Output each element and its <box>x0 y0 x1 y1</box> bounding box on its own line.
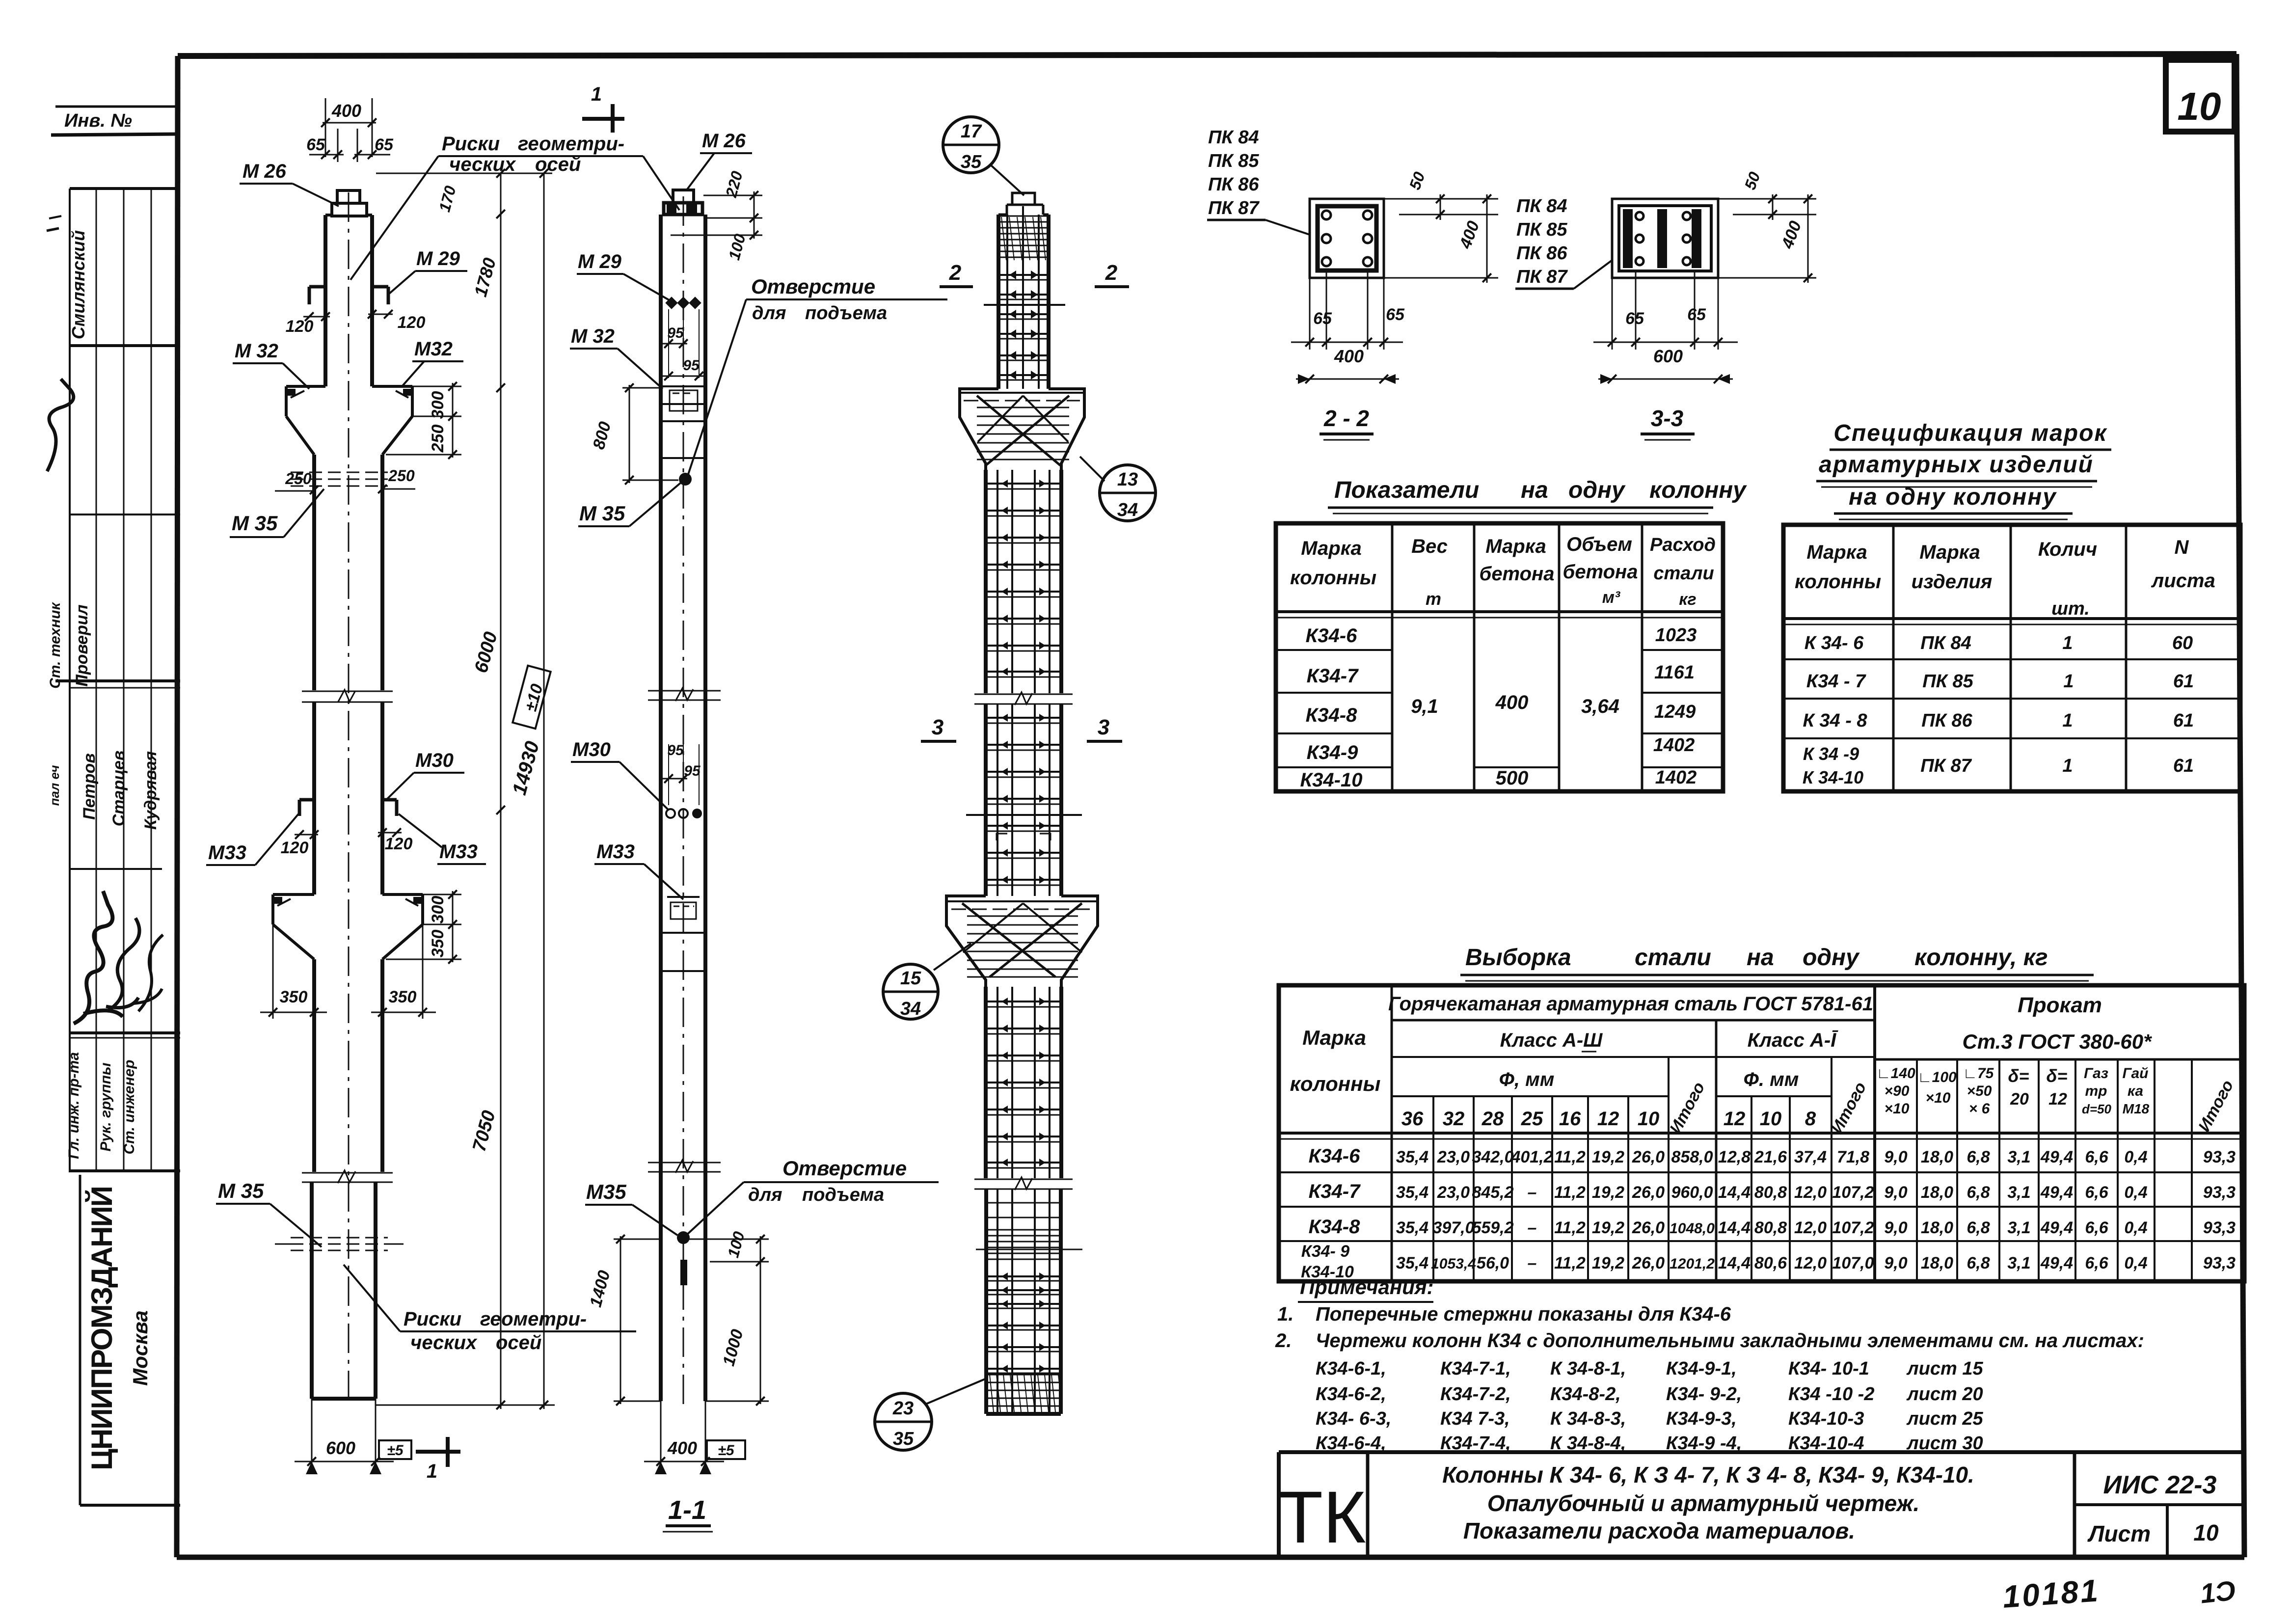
column2 embedded bar lower <box>680 1260 687 1285</box>
column2 shaft <box>661 215 705 1401</box>
svg-text:500: 500 <box>1496 767 1529 789</box>
svg-text:60: 60 <box>2172 633 2193 653</box>
stamp signature scribble 1 <box>47 379 74 471</box>
svg-text:колонну, кг: колонну, кг <box>1914 945 2048 971</box>
svg-text:1: 1 <box>2062 710 2073 731</box>
svg-text:32: 32 <box>1443 1108 1465 1130</box>
svg-text:М 32: М 32 <box>571 325 615 347</box>
svg-text:м³: м³ <box>1602 588 1621 607</box>
svg-text:∟140: ∟140 <box>1876 1065 1915 1082</box>
svg-text:35,4: 35,4 <box>1396 1218 1428 1237</box>
column1 break marks upper <box>302 690 393 703</box>
svg-text:К34 -10 -2: К34 -10 -2 <box>1788 1384 1874 1405</box>
svg-text:342,0: 342,0 <box>1472 1148 1513 1166</box>
svg-text:65: 65 <box>306 135 325 154</box>
svg-text:35: 35 <box>961 152 982 172</box>
label M29 col1 <box>389 248 467 294</box>
svg-text:1249: 1249 <box>1654 702 1696 722</box>
rebar column shaft segment B <box>986 704 1061 896</box>
svg-text:1: 1 <box>2062 756 2073 776</box>
svg-text:400: 400 <box>1495 692 1529 713</box>
svg-text:Объем: Объем <box>1566 534 1632 555</box>
svg-text:Показатели: Показатели <box>1334 477 1479 503</box>
label M29 col2 <box>577 251 672 301</box>
svg-text:К34- 9: К34- 9 <box>1301 1242 1349 1261</box>
svg-text:65: 65 <box>1313 309 1332 328</box>
table2 grid <box>1783 525 2240 791</box>
column2 bands lower <box>661 933 705 971</box>
stamp labels Gl.inzh / Ruk.gruppy / St.inzhener <box>66 1052 137 1159</box>
svg-text:80,8: 80,8 <box>1754 1183 1787 1202</box>
svg-text:М30: М30 <box>572 739 611 760</box>
svg-text:ПК 87: ПК 87 <box>1208 198 1260 218</box>
svg-text:23,0: 23,0 <box>1437 1183 1470 1202</box>
svg-text:для: для <box>748 1185 782 1205</box>
svg-text:М18: М18 <box>2123 1101 2150 1116</box>
column1 shaft lower <box>314 959 382 1172</box>
svg-text:10181: 10181 <box>2001 1572 2101 1615</box>
svg-text:107,0: 107,0 <box>1832 1254 1874 1272</box>
svg-text:400: 400 <box>1334 346 1364 366</box>
svg-text:К34-10: К34-10 <box>1300 769 1363 791</box>
svg-text:23,0: 23,0 <box>1437 1148 1470 1166</box>
svg-text:11,2: 11,2 <box>1554 1148 1586 1166</box>
svg-text:Марка: Марка <box>1302 1026 1366 1049</box>
svg-text:1048,0: 1048,0 <box>1670 1220 1715 1237</box>
svg-text:1Ɔ: 1Ɔ <box>2199 1575 2237 1609</box>
svg-text:9,1: 9,1 <box>1411 696 1438 717</box>
label M26 col2 <box>686 130 752 190</box>
svg-text:на: на <box>1521 477 1548 503</box>
svg-text:8: 8 <box>1805 1108 1816 1130</box>
svg-text:Поперечные стержни показаны: Поперечные стержни показаны для К34-6 <box>1316 1303 1731 1325</box>
rebar column callout circle 13/34 <box>1080 457 1156 521</box>
svg-text:300: 300 <box>429 391 447 419</box>
svg-text:К34 - 7: К34 - 7 <box>1806 671 1866 692</box>
column1 capital 2 outline <box>273 894 423 959</box>
table1 data rows <box>1300 625 1697 791</box>
svg-text:3,1: 3,1 <box>2007 1183 2030 1202</box>
svg-text:Вес: Вес <box>1411 536 1448 557</box>
svg-text:61: 61 <box>2173 671 2194 692</box>
svg-text:49,4: 49,4 <box>2040 1148 2073 1166</box>
svg-text:±5: ±5 <box>718 1442 734 1459</box>
svg-text:21,6: 21,6 <box>1754 1148 1787 1166</box>
svg-text:на: на <box>1747 945 1774 971</box>
svg-text:на одну колонну: на одну колонну <box>1849 484 2057 510</box>
svg-text:13: 13 <box>1117 469 1138 490</box>
column1 corbel plates M29 level <box>309 287 388 304</box>
section mark 1 top <box>582 83 624 133</box>
svg-text:19,2: 19,2 <box>1592 1218 1624 1237</box>
svg-text:Марка: Марка <box>1485 536 1546 557</box>
svg-text:95: 95 <box>667 325 684 341</box>
svg-text:250: 250 <box>429 425 447 453</box>
svg-text:6,8: 6,8 <box>1967 1148 1990 1166</box>
column1 capital2 dims 300 350 right <box>386 890 461 964</box>
svg-text:т: т <box>1426 589 1441 609</box>
label otverstie dlya podyoma bottom <box>686 1157 939 1235</box>
svg-text:400: 400 <box>331 101 361 121</box>
handwritten inventory number below frame <box>2001 1572 2237 1615</box>
svg-text:бетона: бетона <box>1480 563 1555 585</box>
svg-text:12: 12 <box>2048 1090 2067 1109</box>
label M35 col1 lower <box>216 1179 322 1247</box>
svg-text:К 34 -9: К 34 -9 <box>1803 744 1859 764</box>
svg-text:Гай: Гай <box>2122 1065 2148 1082</box>
svg-text:ПК 87: ПК 87 <box>1920 756 1972 776</box>
table1 header texts <box>1290 534 1716 609</box>
column2 bottom dim 400 and tolerance <box>644 1401 745 1474</box>
rebar column capital 1 <box>960 389 1084 470</box>
svg-text:К34-6: К34-6 <box>1306 625 1357 647</box>
column1 corbel plates M33 level <box>299 800 397 816</box>
stamp names Petrov Startsev Kudryavaya <box>47 751 160 830</box>
rebar column top verticals <box>1007 206 1039 389</box>
svg-text:0,4: 0,4 <box>2124 1183 2147 1202</box>
svg-text:арматурных изделий: арматурных изделий <box>1819 452 2094 478</box>
stamp TsNIIPromzdaniy Moskva <box>80 1175 180 1505</box>
label M35 col2 upper <box>578 483 680 526</box>
svg-text:ПК 85: ПК 85 <box>1516 219 1567 240</box>
rebar column break B <box>974 1177 1073 1190</box>
svg-text:0,4: 0,4 <box>2124 1254 2147 1272</box>
column1 dims 350 350 bottom of capital2 <box>260 924 436 1019</box>
svg-text:12: 12 <box>1597 1108 1619 1130</box>
svg-text:80,6: 80,6 <box>1754 1254 1787 1272</box>
column2 view 1-1 centerline <box>683 196 684 1405</box>
svg-text:1-1: 1-1 <box>668 1495 706 1525</box>
svg-text:стали: стали <box>1653 563 1714 584</box>
svg-text:Кудрявая: Кудрявая <box>141 751 160 830</box>
svg-text:∟100: ∟100 <box>1917 1069 1957 1085</box>
svg-text:400: 400 <box>667 1438 697 1458</box>
svg-text:250: 250 <box>285 470 312 487</box>
svg-text:Класс А-Ī: Класс А-Ī <box>1748 1029 1839 1051</box>
rebar column lower segment <box>976 1189 1082 1414</box>
svg-text:3-3: 3-3 <box>1651 406 1684 431</box>
rebar column callout circle 17/35 <box>943 117 1024 195</box>
svg-text:9,0: 9,0 <box>1884 1148 1907 1166</box>
svg-text:М35: М35 <box>586 1180 626 1203</box>
column2 top tenon and cap <box>664 190 702 215</box>
svg-text:×10: ×10 <box>1885 1101 1910 1117</box>
rebar column capital 2 <box>946 896 1098 987</box>
notes list of sheet numbers <box>1316 1358 1983 1454</box>
svg-text:К 34-8-1,: К 34-8-1, <box>1550 1358 1626 1379</box>
svg-text:геометри-: геометри- <box>518 133 624 155</box>
svg-text:12: 12 <box>1724 1108 1746 1130</box>
svg-text:–: – <box>1528 1183 1537 1202</box>
svg-text:К34-9-3,: К34-9-3, <box>1666 1408 1737 1429</box>
column1 capital 1 outline <box>286 386 412 455</box>
svg-text:×50: ×50 <box>1967 1083 1992 1099</box>
column2 top dims 220 100 <box>671 169 762 262</box>
sheet number box top-right <box>2166 60 2235 132</box>
svg-text:Москва: Москва <box>129 1310 152 1385</box>
svg-text:колонны: колонны <box>1795 571 1881 593</box>
svg-text:120: 120 <box>385 835 413 853</box>
svg-text:107,2: 107,2 <box>1832 1183 1874 1202</box>
section cut line 2-2 with labels <box>940 261 1129 305</box>
svg-text:× 6: × 6 <box>1969 1101 1990 1117</box>
label M35 col2 lower <box>585 1180 677 1235</box>
svg-text:960,0: 960,0 <box>1671 1183 1713 1202</box>
svg-text:18,0: 18,0 <box>1921 1183 1953 1202</box>
svg-text:ПК 85: ПК 85 <box>1922 671 1973 692</box>
svg-text:18,0: 18,0 <box>1921 1148 1953 1166</box>
svg-text:300: 300 <box>429 896 447 924</box>
svg-text:осей: осей <box>496 1332 541 1353</box>
svg-text:93,3: 93,3 <box>2203 1218 2236 1237</box>
svg-text:49,4: 49,4 <box>2040 1183 2073 1202</box>
svg-text:1: 1 <box>2063 671 2074 692</box>
svg-text:18,0: 18,0 <box>1921 1254 1953 1272</box>
svg-text:изделия: изделия <box>1912 571 1993 593</box>
column2 dim 1400 left <box>586 1235 661 1406</box>
column1 long dimension line 14930 <box>435 173 551 1409</box>
svg-text:25: 25 <box>1521 1108 1543 1130</box>
svg-text:Марка: Марка <box>1919 541 1980 563</box>
svg-text:19,2: 19,2 <box>1592 1148 1624 1166</box>
svg-text:3,1: 3,1 <box>2007 1254 2030 1272</box>
svg-text:401,2: 401,2 <box>1510 1148 1553 1166</box>
label M35 col1 upper <box>230 489 324 537</box>
column2 break marks lower <box>648 1160 721 1173</box>
svg-text:×10: ×10 <box>1926 1090 1951 1106</box>
svg-text:К 34 - 8: К 34 - 8 <box>1803 710 1867 731</box>
column2 lifting hole upper <box>679 473 692 486</box>
svg-text:К34-7-2,: К34-7-2, <box>1440 1384 1511 1405</box>
svg-text:80,8: 80,8 <box>1754 1218 1787 1237</box>
stamp signatures scribbles <box>74 891 163 1024</box>
svg-text:36: 36 <box>1401 1108 1424 1130</box>
svg-text:К34-10-3: К34-10-3 <box>1788 1408 1864 1429</box>
label M32 left col1 <box>233 340 309 389</box>
table2 header texts <box>1795 537 2215 619</box>
table1 heading Pokazateli na odnu kolonnu <box>1328 477 1747 514</box>
svg-text:К34-9: К34-9 <box>1307 742 1358 763</box>
svg-text:1402: 1402 <box>1653 735 1695 756</box>
column1 capital1 dims 300 250 right <box>386 382 461 459</box>
section cut line 3-3 with labels <box>921 715 1122 815</box>
rebar column shaft segment C <box>986 987 1061 1178</box>
svg-text:лист 20: лист 20 <box>1906 1384 1983 1405</box>
svg-text:18,0: 18,0 <box>1921 1218 1953 1237</box>
svg-text:3,1: 3,1 <box>2007 1218 2030 1237</box>
svg-text:М 35: М 35 <box>579 502 625 525</box>
svg-text:350: 350 <box>429 930 447 958</box>
svg-text:К34-6-2,: К34-6-2, <box>1316 1384 1386 1405</box>
svg-text:δ=: δ= <box>2008 1066 2029 1086</box>
svg-text:М30: М30 <box>415 750 454 771</box>
title block TK logo <box>1278 1476 1366 1558</box>
column2 embedded item dashed <box>667 897 700 919</box>
rebar column callout circle 15/34 <box>883 944 971 1019</box>
svg-text:11,2: 11,2 <box>1554 1183 1586 1202</box>
svg-text:61: 61 <box>2173 710 2194 731</box>
rebar column top segment outline <box>998 205 1049 389</box>
column2 holes three circles <box>666 809 702 818</box>
svg-text:350: 350 <box>280 988 308 1006</box>
column1 joint dashes with 250 labels <box>275 467 415 494</box>
column2 dim 800 <box>590 383 678 485</box>
svg-text:6,6: 6,6 <box>2085 1254 2108 1272</box>
section 3-3 label <box>1641 406 1695 440</box>
svg-text:1.: 1. <box>1277 1303 1293 1325</box>
svg-text:12,8: 12,8 <box>1718 1148 1751 1166</box>
svg-text:95: 95 <box>683 357 700 374</box>
svg-text:Отверстие: Отверстие <box>751 275 875 298</box>
svg-text:10: 10 <box>1760 1108 1782 1130</box>
svg-text:стали: стали <box>1635 945 1711 971</box>
svg-text:Марка: Марка <box>1806 541 1867 563</box>
svg-text:3: 3 <box>932 715 943 739</box>
svg-text:К34-7: К34-7 <box>1309 1181 1361 1202</box>
column K34 front view centerline <box>348 192 350 1405</box>
svg-text:250: 250 <box>388 467 415 485</box>
svg-text:Расход: Расход <box>1650 535 1716 555</box>
column1 shaft below break <box>314 702 382 894</box>
svg-text:М33: М33 <box>208 842 246 864</box>
column2 dims 95 95 top <box>663 309 705 380</box>
PK labels stack left <box>1207 127 1310 235</box>
svg-text:65: 65 <box>1625 309 1644 328</box>
label M32 col2 <box>570 325 663 389</box>
table1 grid <box>1276 523 1723 791</box>
svg-text:Примечания:: Примечания: <box>1300 1275 1434 1299</box>
svg-text:35,4: 35,4 <box>1396 1254 1428 1272</box>
svg-text:Газ: Газ <box>2084 1065 2108 1082</box>
svg-text:ка: ка <box>2128 1083 2143 1099</box>
svg-text:11,2: 11,2 <box>1554 1218 1586 1237</box>
svg-text:858,0: 858,0 <box>1671 1148 1713 1166</box>
svg-text:Ст. инженер: Ст. инженер <box>121 1060 137 1155</box>
label M30 col1 <box>387 750 464 799</box>
stamp: Inv No box <box>51 107 178 135</box>
svg-text:350: 350 <box>389 988 417 1006</box>
svg-text:26,0: 26,0 <box>1632 1254 1665 1272</box>
svg-text:∟75: ∟75 <box>1963 1065 1994 1082</box>
svg-text:бетона: бетона <box>1563 561 1638 583</box>
svg-text:Выборка: Выборка <box>1465 945 1571 971</box>
column2 dims 95 95 mid <box>663 742 701 805</box>
svg-text:26,0: 26,0 <box>1632 1148 1665 1166</box>
title block title lines <box>1442 1462 1974 1543</box>
label riski geometricheskikh osey bottom <box>344 1265 636 1353</box>
svg-text:±5: ±5 <box>387 1442 404 1459</box>
svg-text:12,0: 12,0 <box>1794 1218 1827 1237</box>
svg-text:10: 10 <box>1638 1108 1660 1130</box>
svg-text:10: 10 <box>2178 84 2221 128</box>
svg-text:6,6: 6,6 <box>2085 1148 2108 1166</box>
label otverstie dlya podyoma top <box>686 275 947 480</box>
svg-text:М 32: М 32 <box>235 340 278 362</box>
svg-text:3: 3 <box>1098 715 1109 739</box>
svg-text:6,6: 6,6 <box>2085 1183 2108 1202</box>
svg-text:М33: М33 <box>439 841 478 863</box>
column1 shaft upper part <box>325 215 372 386</box>
svg-text:М33: М33 <box>596 841 635 863</box>
svg-text:Опалубочный и арматурный: Опалубочный и арматурный чертеж. <box>1487 1490 1920 1516</box>
big table header texts <box>1290 993 2237 1137</box>
svg-text:1161: 1161 <box>1654 662 1695 683</box>
svg-text:тр: тр <box>2085 1083 2107 1099</box>
svg-text:2: 2 <box>1105 261 1118 285</box>
label M33 right col1 <box>399 814 486 864</box>
svg-text:–: – <box>1528 1254 1537 1272</box>
rebar column break A <box>974 692 1073 705</box>
svg-text:К34-8-2,: К34-8-2, <box>1550 1384 1621 1405</box>
title block frame <box>1279 1452 2244 1557</box>
stamp table grid <box>55 189 180 1171</box>
svg-text:Отверстие: Отверстие <box>782 1157 907 1180</box>
svg-text:15: 15 <box>900 968 921 989</box>
svg-text:К34-8: К34-8 <box>1306 704 1357 726</box>
svg-text:37,4: 37,4 <box>1794 1148 1827 1166</box>
svg-text:6,8: 6,8 <box>1967 1254 1990 1272</box>
svg-text:одну: одну <box>1568 477 1626 503</box>
svg-text:61: 61 <box>2173 756 2194 776</box>
svg-text:120: 120 <box>281 839 309 857</box>
svg-text:26,0: 26,0 <box>1632 1183 1665 1202</box>
svg-text:для: для <box>752 303 786 324</box>
svg-text:К 34- 6: К 34- 6 <box>1805 633 1864 653</box>
big table data rows <box>1301 1145 2236 1281</box>
svg-text:Ф. мм: Ф. мм <box>1744 1069 1799 1090</box>
rebar column shaft segment A <box>986 470 1061 693</box>
label M32 right col1 <box>402 338 463 387</box>
svg-text:К34-6: К34-6 <box>1309 1145 1360 1167</box>
section 2-2 dims <box>1291 169 1498 384</box>
svg-text:14,4: 14,4 <box>1718 1218 1751 1237</box>
svg-text:397,0: 397,0 <box>1432 1218 1474 1237</box>
svg-text:Гл. инж. пр-та: Гл. инж. пр-та <box>66 1052 82 1159</box>
svg-text:ПК 84: ПК 84 <box>1920 633 1971 653</box>
svg-text:71,8: 71,8 <box>1837 1148 1869 1166</box>
section 2-2 label <box>1320 406 1374 440</box>
svg-text:107,2: 107,2 <box>1832 1218 1874 1237</box>
svg-text:120: 120 <box>398 313 426 332</box>
svg-text:2 - 2: 2 - 2 <box>1323 406 1369 431</box>
svg-text:К34-8: К34-8 <box>1309 1216 1360 1238</box>
svg-text:К34-7: К34-7 <box>1307 665 1359 687</box>
svg-text:М 26: М 26 <box>702 130 746 152</box>
svg-text:К 34-10: К 34-10 <box>1803 767 1863 787</box>
svg-text:N: N <box>2175 537 2189 558</box>
svg-text:93,3: 93,3 <box>2203 1148 2236 1166</box>
big table grid <box>1279 985 2244 1281</box>
view label 1-1 <box>663 1495 713 1532</box>
svg-text:ЦНИИПРОМЗДАНИЙ: ЦНИИПРОМЗДАНИЙ <box>85 1187 118 1470</box>
svg-text:Лист: Лист <box>2087 1521 2151 1546</box>
svg-text:12,0: 12,0 <box>1794 1254 1827 1272</box>
title block sheet no <box>2087 1520 2219 1546</box>
column2 lifting loops three diamonds <box>665 297 701 309</box>
svg-text:Класс А-Ш: Класс А-Ш <box>1500 1029 1603 1051</box>
svg-text:2: 2 <box>949 261 962 285</box>
svg-text:колонны: колонны <box>1290 567 1376 589</box>
column1 bottom part <box>312 1182 376 1399</box>
section mark 1 bottom <box>416 1437 460 1482</box>
svg-text:56,0: 56,0 <box>1477 1254 1509 1272</box>
svg-text:Риски: Риски <box>442 133 500 155</box>
svg-text:26,0: 26,0 <box>1632 1218 1665 1237</box>
PK labels stack right <box>1515 196 1612 289</box>
svg-text:65: 65 <box>1386 305 1405 324</box>
svg-text:М32: М32 <box>414 338 453 360</box>
column1 dim 400 top <box>321 98 377 157</box>
